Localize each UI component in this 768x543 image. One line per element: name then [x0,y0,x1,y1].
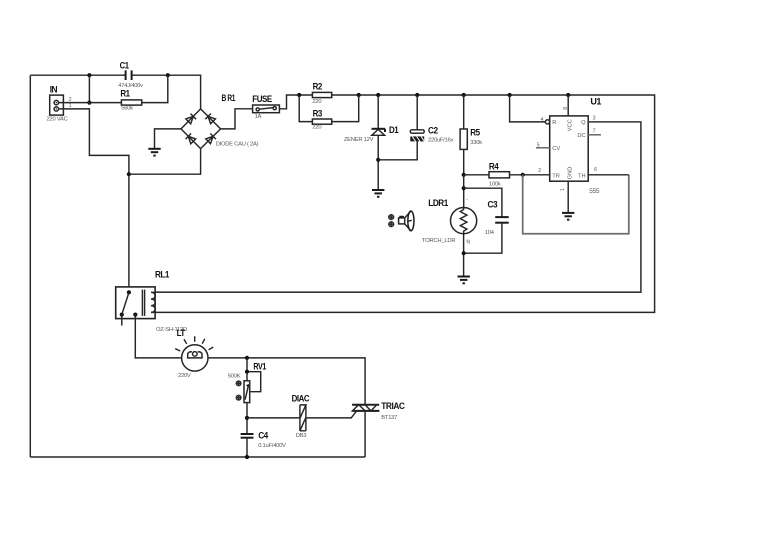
triac TRIAC [352,401,405,457]
bridge BR1 [181,93,259,149]
speaker icon [389,211,414,231]
svg-text:220uF/16v: 220uF/16v [428,138,453,144]
resistor R5 [460,95,482,175]
wire pin7 stub [588,134,601,136]
photoresistor LDR1 [422,197,477,246]
svg-text:3: 3 [593,116,596,122]
svg-text:LDR1: LDR1 [428,198,449,209]
resistor R3 [312,108,331,130]
svg-text:ZENER 12V: ZENER 12V [344,137,374,143]
svg-text:DIODE CAU ( 2A): DIODE CAU ( 2A) [216,142,259,148]
wire top rail left [30,75,200,109]
junction rail R5 [462,93,466,97]
svg-text:VCC: VCC [567,119,573,131]
svg-text:104: 104 [485,230,495,236]
wire R1 to top rail [142,75,168,102]
wire bridge left to ground [155,129,182,149]
svg-text:GND: GND [567,167,573,180]
svg-text:220: 220 [312,99,321,105]
wire LDR to ground [463,234,465,277]
relay RL1 [116,270,187,334]
svg-text:RL1: RL1 [155,270,170,281]
svg-text:C3: C3 [488,200,498,211]
wire main dc rail [155,95,654,312]
junction top rail at x89 [87,73,91,77]
capacitor C2 [378,95,453,160]
svg-text:DB3: DB3 [296,433,307,439]
diode top-left [186,116,194,123]
wire pin1 gnd [567,181,569,213]
wire R3 branch [299,95,359,122]
wire relay NO to lamp [135,315,181,358]
wire pin3 Q to relay coil [155,122,641,292]
svg-text:6: 6 [594,167,597,173]
junction top rail at x168 [166,73,170,77]
wire pin2 drop [88,75,90,102]
junction pin1 route [127,172,131,176]
potentiometer RV1 [228,358,267,403]
bubble pin4 [545,120,549,124]
capacitor C3 [464,188,509,253]
wire pin4 reset [510,95,546,122]
resistor R2 [312,82,331,106]
capacitor C4 [241,403,286,457]
svg-text:D1: D1 [389,125,399,136]
svg-text:R4: R4 [489,162,499,173]
svg-text:BT137: BT137 [381,415,397,421]
svg-text:R2: R2 [313,82,322,93]
svg-text:C1: C1 [120,61,130,72]
junction C4 bottom [245,455,249,459]
svg-text:R5: R5 [470,128,480,139]
svg-text:CV: CV [552,146,560,152]
wire lamp to triac top [208,358,365,405]
junction rail D1 [376,93,380,97]
wire TH stub [588,174,629,176]
junction rail VCC [566,93,570,97]
svg-text:B R1: B R1 [222,93,236,104]
junction TR node [521,173,525,177]
fuse FUSE [252,94,279,120]
junction C3 top [462,186,466,190]
diode bottom-right [206,136,213,143]
svg-text:N: N [466,240,470,246]
junction rail pin4 [508,93,512,97]
wire fuse to rail [279,95,299,109]
junction D1-C2 [376,158,380,162]
ground at D1 [372,190,384,197]
junction rail C2 [415,93,419,97]
svg-text:DIAC: DIAC [292,394,310,405]
resistor R1 [120,89,141,112]
ground at 555 [562,213,574,220]
svg-text:-: - [466,197,468,203]
svg-text:R: R [552,120,556,126]
wire IN pin1 route to relay and bridge [59,109,129,293]
svg-text:TORCH_LDR: TORCH_LDR [422,238,456,244]
ground at LDR [458,277,470,284]
op-amp U1 555 [537,97,602,195]
svg-text:220 VAC: 220 VAC [47,116,68,122]
svg-text:IN: IN [50,84,58,95]
svg-text:0.1uF/400V: 0.1uF/400V [258,443,286,449]
wire IN pin2 to R1 [59,102,122,104]
lamp LT [175,328,213,379]
wire bridge right to fuse [221,109,253,129]
capacitor C1 [118,61,143,89]
junction RV1-DIAC [245,416,249,420]
svg-text:1A: 1A [255,114,262,120]
svg-text:C4: C4 [258,430,269,441]
svg-text:Q: Q [581,120,586,126]
connector IN [47,84,72,122]
junction rail rejoin [357,93,361,97]
junction C3 bottom [462,251,466,255]
svg-text:U1: U1 [590,97,602,108]
ground at bridge [148,149,160,156]
diode top-right [208,116,215,123]
svg-text:TRIAC: TRIAC [381,401,405,412]
wire TH loop [523,175,629,234]
svg-text:TR: TR [552,173,560,179]
svg-text:100k: 100k [489,182,501,188]
junction lamp-RV1 [245,356,249,360]
svg-text:7: 7 [593,129,596,135]
svg-text:C2: C2 [428,126,438,137]
resistor R4 [464,162,550,188]
junction R5-R4-LDR [462,173,466,177]
svg-text:TH: TH [578,173,586,179]
diode bottom-left [188,136,195,144]
svg-text:2: 2 [538,168,541,174]
wire LDR branch [463,175,465,208]
wire pin8 vcc [567,95,569,116]
svg-text:1: 1 [69,103,72,109]
svg-text:220V: 220V [178,373,191,379]
wire pin5 stub [536,147,550,149]
svg-text:RV1: RV1 [253,362,266,373]
svg-text:555: 555 [589,188,600,195]
wire left rail [29,75,31,457]
svg-text:LT: LT [177,328,186,339]
svg-text:R3: R3 [313,108,322,119]
svg-text:330k: 330k [470,140,482,146]
svg-text:560k: 560k [121,105,133,111]
junction pin2 [87,101,91,105]
svg-text:1: 1 [560,188,566,191]
wire to bridge bottom [129,149,201,175]
svg-text:500K: 500K [228,373,241,379]
svg-text:DC: DC [577,133,585,139]
zener D1 [344,95,399,190]
svg-text:R1: R1 [120,89,130,100]
wire bottom rail [30,456,365,458]
diac DIAC [247,394,357,439]
svg-text:220: 220 [312,125,321,131]
junction rail split [297,93,301,97]
svg-text:FUSE: FUSE [252,94,272,105]
